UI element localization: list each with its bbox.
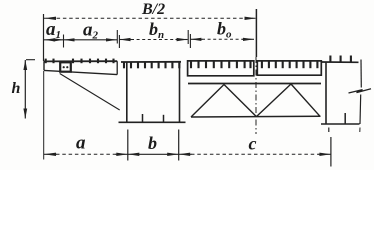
double tick at joint x=188/190.4	[187, 30, 189, 44]
right deck panel 2 (box)	[257, 61, 321, 75]
svg-text:B/2: B/2	[141, 1, 165, 18]
dimension line b (bottom)	[128, 153, 179, 155]
truss bottom chord	[191, 115, 321, 118]
tick at top of h	[26, 59, 35, 61]
svg-text:c: c	[249, 134, 257, 154]
hatch ticks on cantilever (above line)	[46, 59, 114, 64]
dimension line B/2	[44, 17, 257, 19]
dimension h (left, vertical)	[24, 60, 26, 119]
extension line left (bottom part, x=43.5)	[43, 71, 45, 160]
double tick at joint x=117.3/119.3	[116, 30, 118, 44]
svg-text:bn: bn	[149, 19, 164, 41]
cable duct box on cantilever	[60, 62, 71, 71]
web bottom dashed continuation	[328, 128, 330, 133]
hatch ticks on mid deck (below line)	[124, 62, 179, 68]
svg-text:b: b	[148, 133, 157, 153]
truss diagonal 2	[224, 85, 256, 117]
inner rib tick 2	[163, 115, 165, 123]
truss diagonal 3	[256, 84, 291, 117]
right bottom flange	[321, 123, 360, 125]
dimension line c (bottom, dashed)	[191, 153, 319, 155]
cantilever slab top edge	[44, 60, 118, 62]
right web	[325, 62, 327, 124]
dimension line a (bottom)	[56, 153, 116, 155]
truss diagonal 4	[291, 84, 320, 116]
extension line left (top part, x=43.5)	[43, 14, 45, 61]
bottom extension vertical at web2	[178, 130, 180, 161]
right deck top edge continuation	[321, 61, 358, 63]
svg-text:a2: a2	[83, 20, 99, 42]
dimension line bn (dashed)	[131, 39, 176, 41]
truss diagonal 1	[191, 85, 224, 118]
svg-text:a1: a1	[46, 19, 61, 41]
svg-text:bo: bo	[217, 19, 232, 41]
dimension line a1	[44, 39, 64, 41]
break symbol (zigzag)	[349, 89, 372, 93]
rib tick right of web	[344, 113, 346, 124]
svg-text:a: a	[76, 132, 86, 153]
leader diagonal from duct	[60, 74, 120, 111]
web 2 of box section	[179, 62, 181, 123]
bottom flange of box section	[119, 121, 186, 123]
hatch ticks panel 1 (below top line)	[191, 61, 251, 68]
tick a1/a2 boundary x=63.5	[63, 35, 65, 48]
top chord under deck panels	[188, 83, 321, 85]
bottom extension vertical at web1	[127, 130, 129, 161]
hatch ticks panel 2 (below top line)	[262, 61, 318, 68]
hatch ticks right of web (above line)	[330, 56, 351, 63]
break line right edge	[360, 60, 362, 88]
cantilever tip edge	[43, 61, 45, 70]
dimension line a2	[64, 39, 118, 41]
cantilever right edge	[116, 61, 118, 74]
mid deck top edge	[121, 61, 181, 63]
break line lower dash	[359, 128, 361, 133]
bottom extension vertical at right web	[330, 137, 332, 167]
inner rib tick 1	[142, 114, 144, 122]
svg-text:h: h	[12, 80, 21, 97]
web 1 of box section	[126, 62, 128, 122]
dimension line b0 (dashed)	[202, 38, 243, 40]
centerline (axis of symmetry, x=256.3)	[255, 9, 257, 57]
cantilever bottom edge (tapered)	[44, 70, 117, 74]
right deck panel 1 (box)	[188, 61, 254, 76]
